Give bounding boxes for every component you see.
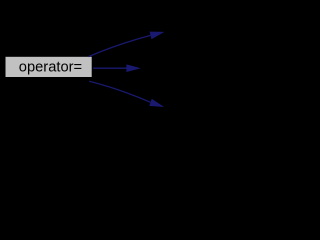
edge arrow 1 (top) bbox=[89, 32, 165, 57]
edge arrow 2 (middle) bbox=[93, 64, 141, 72]
svg-text:operator=: operator= bbox=[19, 60, 82, 76]
edge arrow 3 (bottom) bbox=[89, 81, 164, 107]
node operator= bbox=[6, 57, 92, 77]
